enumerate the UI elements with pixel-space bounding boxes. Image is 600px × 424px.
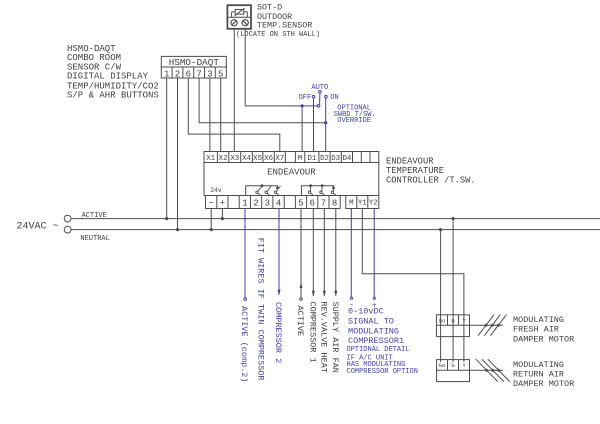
svg-text:FRESH AIR: FRESH AIR — [513, 325, 559, 335]
label MODULATING RETURN AIR DAMPER MOTOR — [513, 360, 574, 389]
wire ACTIVE rail — [71, 218, 600, 220]
svg-text:OVERRIDE: OVERRIDE — [337, 117, 371, 125]
svg-text:X2: X2 — [219, 155, 228, 163]
svg-text:ENDEAVOUR: ENDEAVOUR — [386, 157, 434, 167]
svg-text:8: 8 — [332, 198, 337, 208]
fresh air damper terminal box — [436, 315, 469, 337]
relay contact K3 — [265, 186, 271, 196]
terminal circle end comp2 active — [244, 298, 247, 301]
svg-text:MODULATING: MODULATING — [348, 327, 399, 337]
junction dots fresh air wire — [485, 324, 488, 327]
controller M Y1 Y2 terminal strip — [346, 196, 379, 209]
svg-text:OPTIONAL DETAIL: OPTIONAL DETAIL — [347, 346, 410, 354]
svg-text:24v: 24v — [210, 187, 221, 194]
relay contact group A bracket — [246, 186, 278, 196]
svg-text:4: 4 — [276, 198, 281, 208]
wire terminal Y1 to damper Y — [362, 209, 464, 363]
svg-text:SUPPLY AIR FAN: SUPPLY AIR FAN — [330, 302, 340, 373]
svg-text:DIGITAL DISPLAY: DIGITAL DISPLAY — [67, 72, 149, 82]
svg-text:7: 7 — [196, 69, 201, 79]
supply terminal circle NEUTRAL — [64, 226, 71, 233]
wire terminal 6 compressor 1 — [312, 209, 314, 296]
svg-text:3: 3 — [265, 198, 270, 208]
room sensor terminal strip 1 2 6 7 3 5 — [161, 67, 226, 78]
wire sensor terminal 1 to ACTIVE rail — [166, 78, 168, 219]
sensor SOT-D box — [227, 5, 251, 29]
svg-text:3: 3 — [207, 69, 212, 79]
relay contact group B bracket — [301, 186, 333, 196]
screw terminal right — [242, 20, 248, 26]
svg-text:FIT WIRES IF TWIN COMPRESSOR: FIT WIRES IF TWIN COMPRESSOR — [256, 238, 266, 381]
svg-text:COMPRESSOR 2: COMPRESSOR 2 — [273, 302, 283, 363]
sensor SOT-D inner divider — [228, 16, 250, 18]
relay contact K4 — [274, 186, 280, 196]
junction dot on NEUTRAL rail — [176, 228, 179, 231]
svg-text:−: − — [208, 198, 213, 208]
svg-text:M: M — [298, 155, 302, 163]
wire terminal M 0-10v minus — [350, 209, 352, 298]
svg-text:DAMPER MOTOR: DAMPER MOTOR — [513, 379, 574, 389]
supply terminal circle ACTIVE — [64, 215, 71, 222]
wire ACTIVE rail to damper G — [452, 219, 454, 362]
junction dot minus/NEUTRAL — [210, 228, 213, 231]
wire terminal 5 active — [300, 209, 302, 298]
svg-text:1: 1 — [242, 198, 247, 208]
svg-text:D3: D3 — [331, 155, 340, 163]
label 0-10vDC SIGNAL TO MODULATING COMPRESSOR1 — [348, 307, 404, 347]
relay contact K7 — [320, 187, 324, 196]
relay contact K8 — [331, 189, 335, 196]
svg-text:DAMPER MOTOR: DAMPER MOTOR — [513, 334, 574, 344]
wire sensor terminal 3 to controller X1 — [209, 78, 211, 152]
svg-text:(LOCATE ON STH WALL): (LOCATE ON STH WALL) — [236, 31, 320, 39]
node junction dot D2 — [324, 121, 327, 124]
wire terminal minus to NEUTRAL rail — [210, 209, 212, 230]
wire terminal 4 compressor 2 — [278, 209, 280, 295]
svg-text:24VAC ~: 24VAC ~ — [17, 222, 59, 233]
arrowhead up on active wire — [300, 282, 303, 288]
svg-text:COMPRESSOR 1: COMPRESSOR 1 — [307, 302, 317, 363]
wire NEUTRAL rail to damper Go — [440, 230, 442, 362]
wire OFF contact to controller D1 — [313, 98, 315, 152]
controller bottom terminal labels — [208, 198, 337, 208]
label OPTIONAL SWBD T/SW. OVERRIDE — [334, 105, 376, 126]
arrowhead rev valve — [323, 291, 326, 297]
label MODULATING FRESH AIR DAMPER MOTOR — [513, 315, 574, 344]
svg-text:M: M — [349, 200, 353, 208]
svg-text:ACTIVE: ACTIVE — [295, 306, 305, 337]
svg-text:SIGNAL TO: SIGNAL TO — [348, 317, 394, 327]
svg-text:7: 7 — [321, 198, 326, 208]
svg-text:S/P & AHR BUTTONS: S/P & AHR BUTTONS — [67, 91, 159, 101]
wire sensor terminal 6 to controller X7 — [188, 78, 279, 152]
wire SOT-D left terminal to controller X3 — [233, 29, 235, 152]
terminal circle end plus — [373, 297, 375, 299]
node junction dot sensor/switch common — [301, 104, 304, 107]
wire switch common — [302, 105, 317, 107]
svg-text:REV.VALVE HEAT: REV.VALVE HEAT — [318, 302, 328, 373]
svg-text:X3: X3 — [230, 155, 239, 163]
svg-text:2: 2 — [253, 198, 258, 208]
svg-text:COMPRESSOR1: COMPRESSOR1 — [348, 336, 404, 346]
svg-text:X1: X1 — [206, 155, 215, 163]
wire terminal Y2 0-10v plus — [373, 209, 375, 298]
svg-text:D1: D1 — [307, 155, 316, 163]
svg-text:Go: Go — [439, 362, 446, 369]
svg-text:6: 6 — [309, 198, 314, 208]
arrowhead compressor 1 — [312, 291, 315, 297]
svg-text:2: 2 — [175, 69, 180, 79]
svg-text:OFF: OFF — [299, 94, 312, 102]
wire terminal plus to ACTIVE rail — [221, 209, 223, 219]
svg-text:COMPRESSOR OPTION: COMPRESSOR OPTION — [347, 368, 418, 376]
label OPTIONAL DETAIL IF A/C UNIT HAS MODULATING COMPRESSOR OPTION — [347, 346, 418, 376]
terminal circle end active — [300, 298, 303, 301]
wire NEUTRAL rail — [71, 229, 600, 231]
svg-text:6: 6 — [186, 69, 191, 79]
switch SW1 arm — [319, 93, 321, 104]
label ENDEAVOUR TEMPERATURE CONTROLLER /T.SW. — [386, 157, 476, 186]
junction dot NEUTRAL/damper — [439, 228, 442, 231]
svg-text:0-10vDC: 0-10vDC — [348, 307, 384, 317]
svg-text:5: 5 — [298, 198, 303, 208]
wire sensor terminal 5 to controller X2 — [220, 78, 222, 152]
svg-text:ENDEAVOUR: ENDEAVOUR — [267, 168, 316, 178]
svg-text:NEUTRAL: NEUTRAL — [80, 235, 109, 243]
screw terminal left — [231, 20, 237, 26]
relay contact group B dots — [309, 184, 312, 187]
relay contact K6 — [308, 187, 312, 196]
wire terminal 7 rev valve — [323, 209, 325, 296]
switch SW1 contacts — [312, 90, 327, 107]
junction dots return air wire — [485, 369, 488, 372]
thermistor symbol — [232, 8, 248, 17]
room sensor HSMO-DAQT header box — [161, 56, 226, 67]
controller top terminal labels — [206, 155, 352, 163]
wire terminal 8 supply air fan — [335, 209, 337, 296]
svg-text:X4: X4 — [242, 155, 251, 163]
svg-text:X6: X6 — [264, 155, 273, 163]
relay contact K2 — [256, 186, 262, 196]
wire sensor terminal 2 to NEUTRAL rail — [177, 78, 179, 230]
svg-text:ACTIVE (comp.2): ACTIVE (comp.2) — [239, 306, 249, 383]
svg-text:D2: D2 — [320, 155, 329, 163]
svg-text:Y1: Y1 — [358, 200, 367, 208]
junction dot ACTIVE/damper — [452, 217, 455, 220]
arrowhead compressor 2 — [278, 290, 281, 296]
wire return air damper motor — [470, 369, 504, 371]
svg-text:MODULATING: MODULATING — [513, 315, 564, 325]
svg-text:X7: X7 — [275, 155, 284, 163]
controller U1 top terminal strip — [204, 152, 379, 163]
svg-text:TEMPERATURE: TEMPERATURE — [386, 166, 444, 176]
controller U1 bottom terminal strip — [206, 196, 341, 209]
junction dot on ACTIVE rail — [165, 217, 168, 220]
svg-text:X5: X5 — [253, 155, 262, 163]
svg-text:RETURN AIR: RETURN AIR — [513, 369, 564, 379]
svg-text:Go: Go — [439, 317, 446, 324]
svg-text:1: 1 — [164, 69, 169, 79]
svg-text:TEMP.SENSOR: TEMP.SENSOR — [257, 21, 312, 31]
controller U1 main body — [204, 163, 379, 196]
hatch marks return air — [476, 359, 510, 382]
svg-text:CONTROLLER /T.SW.: CONTROLLER /T.SW. — [386, 176, 476, 186]
hatch marks fresh air — [478, 315, 506, 336]
return air damper terminal box — [437, 360, 470, 382]
svg-text:Y2: Y2 — [369, 200, 378, 208]
wire sensor terminal 7 to node D2 — [199, 78, 326, 123]
svg-text:+: + — [220, 198, 225, 208]
svg-text:D4: D4 — [342, 155, 351, 163]
terminal circle end minus — [350, 297, 352, 299]
arrowhead supply air fan — [334, 291, 337, 297]
svg-text:MODULATING: MODULATING — [513, 360, 564, 370]
wire terminal 1 active comp2 — [244, 209, 246, 298]
relay contact group A dots — [261, 184, 264, 187]
svg-text:ON: ON — [330, 94, 338, 102]
svg-text:5: 5 — [218, 69, 223, 79]
wire ON contact to controller D2 — [325, 98, 327, 152]
junction dot plus/ACTIVE — [221, 217, 224, 220]
wire fresh air damper motor — [470, 324, 504, 326]
label HSMO-DAQT room sensor description — [67, 44, 159, 101]
wire SOT-D right terminal to controller M (top row) — [245, 29, 302, 152]
